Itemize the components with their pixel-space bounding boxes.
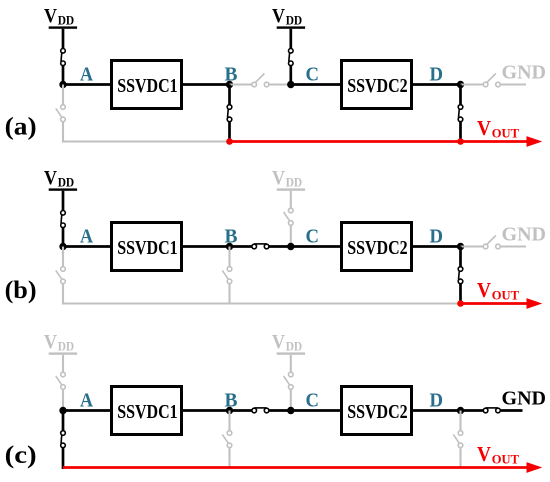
svg-text:B: B	[225, 390, 238, 412]
svg-text:OUT: OUT	[492, 452, 520, 467]
block U2 SSVDC2 panel a	[342, 61, 412, 109]
svg-text:(b): (b)	[5, 277, 37, 304]
red VOUT rail panel b	[461, 298, 543, 309]
switch A-to-rail (open) panel a	[56, 85, 66, 143]
node D panel b	[457, 243, 464, 250]
svg-text:V: V	[44, 6, 57, 27]
block U2 SSVDC2 panel b	[342, 223, 412, 271]
svg-text:C: C	[306, 390, 320, 412]
block U2 SSVDC2 panel c	[342, 387, 412, 435]
svg-text:V: V	[272, 6, 285, 27]
svg-text:DD: DD	[58, 14, 74, 28]
wire A to SSVDC1 panel b	[63, 245, 112, 248]
svg-text:DD: DD	[286, 176, 303, 190]
switch D-to-GND (closed) panel c	[461, 408, 523, 413]
switch D-to-GND (open) panel b	[461, 236, 527, 249]
VDD supply 1 panel c	[44, 332, 77, 355]
wire A to SSVDC1 panel a	[63, 83, 112, 86]
node D panel a	[457, 81, 464, 88]
red junction below D panel a	[457, 138, 464, 145]
node B panel a	[226, 81, 233, 88]
label VOUT panel c	[477, 442, 519, 466]
svg-text:SSVDC1: SSVDC1	[117, 402, 178, 423]
VDD supply 1 panel a	[44, 6, 77, 29]
node D panel c	[457, 407, 464, 414]
switch B-to-C (closed) panel b	[230, 244, 291, 249]
switch B-to-C (closed) panel c	[230, 408, 291, 413]
wire C to SSVDC2 panel a	[291, 83, 342, 86]
wire SSVDC1 to B panel b	[182, 245, 230, 248]
switch B-to-rail (closed) panel a	[227, 85, 232, 143]
switch D-to-rail (closed) panel a	[458, 85, 463, 143]
svg-text:D: D	[430, 390, 444, 412]
switch A-to-rail (closed) panel c	[61, 411, 66, 469]
node A panel c	[59, 407, 66, 414]
switch VDD1-to-A (closed) panel a	[61, 29, 66, 85]
block U1 SSVDC1 panel c	[112, 387, 182, 435]
switch B-to-C (open) panel a	[230, 74, 291, 87]
red junction below D panel b	[457, 300, 464, 307]
red VOUT rail panel c	[63, 462, 542, 473]
svg-text:V: V	[477, 442, 491, 466]
VDD supply 1 panel b	[44, 168, 77, 191]
svg-text:SSVDC2: SSVDC2	[347, 402, 408, 423]
svg-text:V: V	[272, 332, 285, 353]
svg-text:DD: DD	[286, 340, 303, 354]
VDD supply 2 panel b	[272, 168, 305, 191]
svg-text:C: C	[306, 64, 320, 86]
svg-text:V: V	[477, 278, 491, 302]
wire SSVDC1 to B panel c	[182, 409, 230, 412]
block U1 SSVDC1 panel b	[112, 223, 182, 271]
switch VDD2-to-C (closed) panel a	[289, 29, 294, 85]
switch D-to-rail (closed) panel b	[458, 247, 463, 305]
svg-text:SSVDC1: SSVDC1	[117, 76, 178, 97]
switch B-to-rail (open) panel c	[222, 411, 232, 469]
svg-text:DD: DD	[58, 176, 74, 190]
block U1 SSVDC1 panel a	[112, 61, 182, 109]
svg-text:B: B	[225, 64, 238, 86]
switch D-to-GND (open) panel a	[461, 74, 527, 87]
red junction below B panel a	[226, 138, 233, 145]
VDD supply 2 panel a	[272, 6, 305, 29]
svg-text:DD: DD	[286, 14, 303, 28]
svg-text:V: V	[272, 168, 285, 189]
wire A to SSVDC1 panel c	[63, 409, 112, 412]
node B panel c	[226, 407, 233, 414]
svg-text:V: V	[477, 116, 491, 140]
svg-text:SSVDC2: SSVDC2	[347, 76, 408, 97]
switch VDD2-to-C (open) panel c	[284, 355, 294, 411]
svg-text:(c): (c)	[5, 442, 37, 469]
node A panel a	[59, 81, 66, 88]
svg-text:B: B	[225, 226, 238, 248]
switch VDD1-to-A (closed) panel b	[61, 191, 66, 247]
wire C to SSVDC2 panel c	[291, 409, 342, 412]
svg-text:C: C	[306, 226, 320, 248]
svg-text:(a): (a)	[5, 114, 37, 141]
switch D-to-rail (open) panel c	[453, 411, 463, 469]
svg-text:A: A	[80, 226, 93, 248]
red VOUT rail panel a	[230, 136, 543, 147]
switch B-to-rail (open) panel b	[222, 247, 232, 305]
wire C to SSVDC2 panel b	[291, 245, 342, 248]
svg-text:OUT: OUT	[492, 288, 520, 303]
svg-text:OUT: OUT	[492, 126, 520, 141]
node C panel c	[287, 407, 294, 414]
wire SSVDC2 to D panel a	[412, 83, 461, 86]
node C panel a	[287, 81, 294, 88]
svg-text:A: A	[80, 64, 93, 86]
svg-text:GND: GND	[502, 388, 547, 409]
wire SSVDC2 to D panel c	[412, 409, 461, 412]
svg-text:DD: DD	[58, 340, 74, 354]
svg-text:D: D	[430, 64, 444, 86]
svg-text:SSVDC2: SSVDC2	[347, 238, 408, 259]
wire SSVDC1 to B panel a	[182, 83, 230, 86]
svg-text:D: D	[430, 226, 444, 248]
node C panel b	[287, 243, 294, 250]
svg-text:SSVDC1: SSVDC1	[117, 238, 178, 259]
switch VDD1-to-A (open) panel c	[56, 355, 66, 411]
gray return rail panel b	[62, 302, 461, 304]
gray return rail panel a	[62, 140, 230, 142]
wire SSVDC2 to D panel b	[412, 245, 461, 248]
switch VDD2-to-C (open) panel b	[284, 191, 294, 247]
svg-text:V: V	[44, 332, 57, 353]
node B panel b	[226, 243, 233, 250]
label VOUT panel a	[477, 116, 519, 140]
label VOUT panel b	[477, 278, 519, 302]
VDD supply 2 panel c	[272, 332, 305, 355]
svg-text:A: A	[80, 390, 93, 412]
svg-text:V: V	[44, 168, 57, 189]
svg-text:GND: GND	[502, 224, 547, 245]
svg-text:GND: GND	[502, 62, 547, 83]
node A panel b	[59, 243, 66, 250]
switch A-to-rail (open) panel b	[56, 247, 66, 305]
